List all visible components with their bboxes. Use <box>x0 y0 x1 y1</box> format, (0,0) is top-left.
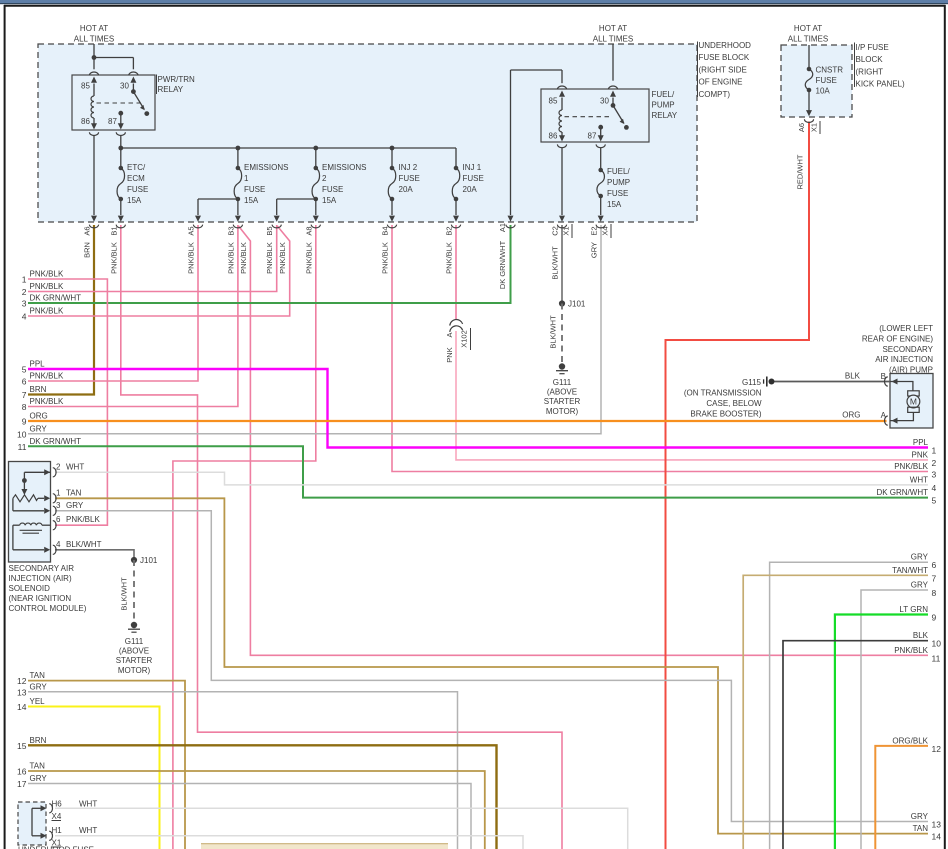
svg-text:FUSE: FUSE <box>322 185 343 194</box>
svg-text:TAN: TAN <box>66 488 82 497</box>
svg-text:GRY: GRY <box>66 501 84 510</box>
svg-text:PNK/BLK: PNK/BLK <box>30 282 64 291</box>
svg-text:(ON TRANSMISSION: (ON TRANSMISSION <box>684 389 762 398</box>
svg-text:GRY: GRY <box>911 581 929 590</box>
svg-text:5: 5 <box>932 496 937 506</box>
svg-text:15A: 15A <box>127 196 142 205</box>
svg-text:GRY: GRY <box>590 242 599 258</box>
svg-text:REAR OF ENGINE): REAR OF ENGINE) <box>862 334 933 343</box>
svg-text:4: 4 <box>56 540 61 549</box>
svg-text:ALL TIMES: ALL TIMES <box>593 35 633 44</box>
svg-text:A8: A8 <box>304 226 313 235</box>
svg-text:(LOWER LEFT: (LOWER LEFT <box>879 324 933 333</box>
svg-text:EMISSIONS: EMISSIONS <box>244 163 288 172</box>
svg-text:17: 17 <box>17 779 27 789</box>
svg-text:3: 3 <box>56 501 61 510</box>
svg-text:E2: E2 <box>590 226 599 235</box>
svg-text:J101: J101 <box>140 556 158 565</box>
svg-text:C2: C2 <box>551 226 560 236</box>
svg-text:WHT: WHT <box>79 826 97 835</box>
svg-text:8: 8 <box>22 402 27 412</box>
svg-text:PWR/TRN: PWR/TRN <box>158 75 196 84</box>
svg-text:RED/WHT: RED/WHT <box>796 154 805 189</box>
svg-text:FUSE: FUSE <box>244 185 265 194</box>
svg-text:(RIGHT: (RIGHT <box>856 67 884 76</box>
svg-text:LT GRN: LT GRN <box>899 605 928 614</box>
svg-text:M: M <box>910 396 917 406</box>
svg-text:SECONDARY AIR: SECONDARY AIR <box>9 564 75 573</box>
svg-text:G111: G111 <box>553 378 572 387</box>
svg-text:FUSE: FUSE <box>607 189 628 198</box>
svg-text:PPL: PPL <box>30 360 46 369</box>
svg-text:BLK: BLK <box>845 372 861 381</box>
svg-text:BLK: BLK <box>913 631 929 640</box>
svg-text:PPL: PPL <box>913 438 929 447</box>
svg-text:GRY: GRY <box>911 812 929 821</box>
svg-text:ORG: ORG <box>30 412 48 421</box>
svg-text:X1: X1 <box>810 123 819 132</box>
svg-text:EMISSIONS: EMISSIONS <box>322 163 366 172</box>
svg-text:ECM: ECM <box>127 174 145 183</box>
svg-text:PNK/BLK: PNK/BLK <box>445 242 454 274</box>
svg-text:15A: 15A <box>322 196 337 205</box>
svg-text:COMPT): COMPT) <box>699 90 731 99</box>
svg-text:GRY: GRY <box>30 424 48 433</box>
svg-text:GRY: GRY <box>911 553 929 562</box>
svg-text:14: 14 <box>932 832 942 842</box>
svg-text:PUMP: PUMP <box>607 178 630 187</box>
svg-text:3: 3 <box>22 299 27 309</box>
svg-text:G111: G111 <box>125 637 144 646</box>
svg-text:87: 87 <box>588 132 597 141</box>
svg-text:20A: 20A <box>463 185 478 194</box>
svg-text:(ABOVE: (ABOVE <box>547 388 577 397</box>
svg-text:FUSE: FUSE <box>463 174 484 183</box>
svg-text:TAN: TAN <box>30 671 46 680</box>
svg-text:A6: A6 <box>797 123 806 132</box>
svg-text:PNK/BLK: PNK/BLK <box>381 242 390 274</box>
svg-text:4: 4 <box>932 483 937 493</box>
svg-text:SOLENOID: SOLENOID <box>9 584 51 593</box>
svg-text:ORG/BLK: ORG/BLK <box>892 736 928 745</box>
svg-text:GRY: GRY <box>30 774 48 783</box>
svg-text:85: 85 <box>549 97 558 106</box>
svg-text:DK GRN/WHT: DK GRN/WHT <box>30 294 82 303</box>
svg-text:9: 9 <box>22 417 27 427</box>
svg-text:HOT AT: HOT AT <box>80 24 108 33</box>
svg-text:PNK/BLK: PNK/BLK <box>278 242 287 274</box>
svg-text:B1: B1 <box>109 226 118 235</box>
svg-text:15: 15 <box>17 741 27 751</box>
svg-text:CONTROL MODULE): CONTROL MODULE) <box>9 604 87 613</box>
svg-text:20A: 20A <box>399 185 414 194</box>
svg-text:11: 11 <box>18 442 27 452</box>
svg-text:UNDERHOOD FUSE: UNDERHOOD FUSE <box>18 846 94 849</box>
svg-text:PNK/BLK: PNK/BLK <box>226 242 235 274</box>
svg-text:FUEL/: FUEL/ <box>652 90 675 99</box>
svg-text:B: B <box>881 372 886 381</box>
svg-text:PNK/BLK: PNK/BLK <box>109 242 118 274</box>
svg-text:86: 86 <box>549 132 558 141</box>
svg-text:9: 9 <box>932 613 937 623</box>
svg-text:(RIGHT SIDE: (RIGHT SIDE <box>699 65 747 74</box>
svg-text:1: 1 <box>22 275 27 285</box>
svg-text:2: 2 <box>322 174 327 183</box>
svg-text:2: 2 <box>932 458 937 468</box>
svg-text:DK GRN/WHT: DK GRN/WHT <box>876 488 928 497</box>
svg-text:DK GRN/WHT: DK GRN/WHT <box>498 240 507 289</box>
svg-text:12: 12 <box>17 676 27 686</box>
svg-text:A: A <box>445 332 454 337</box>
svg-text:TAN: TAN <box>30 762 46 771</box>
svg-text:YEL: YEL <box>30 697 46 706</box>
svg-text:H1: H1 <box>52 826 63 835</box>
svg-text:B2: B2 <box>445 226 454 235</box>
svg-text:BLK/WHT: BLK/WHT <box>120 577 129 611</box>
svg-text:PNK/BLK: PNK/BLK <box>30 307 64 316</box>
svg-text:FUEL/: FUEL/ <box>607 167 630 176</box>
svg-text:ALL TIMES: ALL TIMES <box>788 35 828 44</box>
svg-text:1: 1 <box>56 488 61 497</box>
svg-text:10: 10 <box>932 639 942 649</box>
svg-text:UNDERHOOD: UNDERHOOD <box>699 41 752 50</box>
svg-text:2: 2 <box>56 462 61 471</box>
svg-text:7: 7 <box>932 573 937 583</box>
svg-text:B5: B5 <box>265 226 274 235</box>
svg-text:(NEAR IGNITION: (NEAR IGNITION <box>9 594 72 603</box>
svg-text:PNK/BLK: PNK/BLK <box>265 242 274 274</box>
svg-text:A6: A6 <box>83 226 92 235</box>
svg-text:6: 6 <box>22 377 27 387</box>
svg-text:MOTOR): MOTOR) <box>546 407 579 416</box>
svg-text:5: 5 <box>22 365 27 375</box>
svg-text:2: 2 <box>22 287 27 297</box>
svg-text:G115: G115 <box>742 378 762 387</box>
svg-text:30: 30 <box>600 97 609 106</box>
svg-text:OF ENGINE: OF ENGINE <box>699 78 743 87</box>
svg-text:FUSE BLOCK: FUSE BLOCK <box>699 53 750 62</box>
svg-text:B3: B3 <box>226 226 235 235</box>
svg-text:GRY: GRY <box>30 682 48 691</box>
svg-text:MOTOR): MOTOR) <box>118 666 151 675</box>
svg-text:PNK/BLK: PNK/BLK <box>30 372 64 381</box>
svg-text:A5: A5 <box>187 226 196 235</box>
svg-text:H6: H6 <box>52 800 63 809</box>
svg-text:J101: J101 <box>568 300 586 309</box>
svg-text:BLK/WHT: BLK/WHT <box>549 315 558 349</box>
svg-text:8: 8 <box>932 588 937 598</box>
svg-text:KICK PANEL): KICK PANEL) <box>856 80 906 89</box>
svg-text:AIR INJECTION: AIR INJECTION <box>875 355 933 364</box>
svg-text:BRN: BRN <box>30 385 47 394</box>
svg-text:(ABOVE: (ABOVE <box>119 647 149 656</box>
svg-text:A1: A1 <box>498 223 507 232</box>
svg-text:10: 10 <box>17 429 27 439</box>
svg-text:10A: 10A <box>816 87 831 96</box>
svg-text:FUSE: FUSE <box>816 76 837 85</box>
svg-text:HOT AT: HOT AT <box>599 24 627 33</box>
svg-text:INJECTION (AIR): INJECTION (AIR) <box>9 574 72 583</box>
svg-text:ALL TIMES: ALL TIMES <box>74 35 114 44</box>
svg-text:13: 13 <box>17 687 27 697</box>
svg-text:TAN/WHT: TAN/WHT <box>892 566 928 575</box>
svg-text:CNSTR: CNSTR <box>816 66 844 75</box>
svg-text:6: 6 <box>932 560 937 570</box>
svg-text:TAN: TAN <box>913 824 929 833</box>
svg-text:15A: 15A <box>244 196 259 205</box>
svg-text:30: 30 <box>120 82 129 91</box>
svg-text:FUSE: FUSE <box>399 174 420 183</box>
svg-text:SECONDARY: SECONDARY <box>882 345 933 354</box>
svg-text:(AIR) PUMP: (AIR) PUMP <box>889 366 933 375</box>
svg-text:BRN: BRN <box>30 736 47 745</box>
svg-text:7: 7 <box>22 390 27 400</box>
svg-text:B4: B4 <box>381 226 390 235</box>
svg-text:HOT AT: HOT AT <box>794 24 822 33</box>
svg-text:15A: 15A <box>607 200 622 209</box>
svg-text:WHT: WHT <box>66 462 84 471</box>
svg-text:PNK: PNK <box>912 450 929 459</box>
svg-text:PNK/BLK: PNK/BLK <box>239 242 248 274</box>
svg-text:12: 12 <box>932 744 942 754</box>
svg-text:BRAKE BOOSTER): BRAKE BOOSTER) <box>690 409 761 418</box>
svg-text:PNK/BLK: PNK/BLK <box>30 270 64 279</box>
svg-text:X102: X102 <box>460 330 469 348</box>
svg-text:86: 86 <box>81 117 90 126</box>
svg-text:STARTER: STARTER <box>544 397 581 406</box>
svg-text:X1: X1 <box>562 226 571 235</box>
svg-text:WHT: WHT <box>79 800 97 809</box>
svg-text:PNK/BLK: PNK/BLK <box>66 515 100 524</box>
svg-text:A: A <box>881 411 887 420</box>
svg-text:BRN: BRN <box>83 242 92 258</box>
svg-text:PNK/BLK: PNK/BLK <box>304 242 313 274</box>
svg-text:13: 13 <box>932 820 942 830</box>
svg-text:I/P FUSE: I/P FUSE <box>856 43 889 52</box>
svg-text:ORG: ORG <box>842 411 860 420</box>
svg-text:X4: X4 <box>52 812 62 821</box>
svg-text:PUMP: PUMP <box>652 101 675 110</box>
svg-text:1: 1 <box>244 174 249 183</box>
svg-text:PNK/BLK: PNK/BLK <box>894 646 928 655</box>
svg-text:WHT: WHT <box>910 475 928 484</box>
svg-text:FUSE: FUSE <box>127 185 148 194</box>
svg-text:3: 3 <box>932 470 937 480</box>
svg-text:BLK/WHT: BLK/WHT <box>66 540 102 549</box>
svg-text:X4: X4 <box>601 226 610 235</box>
svg-text:CASE, BELOW: CASE, BELOW <box>706 399 762 408</box>
svg-text:11: 11 <box>932 653 941 663</box>
svg-text:4: 4 <box>22 312 27 322</box>
svg-text:PNK/BLK: PNK/BLK <box>187 242 196 274</box>
svg-text:PNK/BLK: PNK/BLK <box>30 397 64 406</box>
svg-text:85: 85 <box>81 82 90 91</box>
svg-text:DK GRN/WHT: DK GRN/WHT <box>30 437 82 446</box>
svg-text:INJ 2: INJ 2 <box>399 163 418 172</box>
svg-text:14: 14 <box>17 702 27 712</box>
svg-text:INJ 1: INJ 1 <box>463 163 482 172</box>
svg-text:BLOCK: BLOCK <box>856 55 884 64</box>
svg-text:ETC/: ETC/ <box>127 163 146 172</box>
svg-text:87: 87 <box>108 117 117 126</box>
svg-text:PNK/BLK: PNK/BLK <box>894 462 928 471</box>
svg-text:PNK: PNK <box>445 347 454 362</box>
svg-text:6: 6 <box>56 515 61 524</box>
svg-text:16: 16 <box>17 767 27 777</box>
svg-text:1: 1 <box>932 446 937 456</box>
svg-text:RELAY: RELAY <box>158 85 184 94</box>
svg-text:RELAY: RELAY <box>652 111 678 120</box>
svg-text:BLK/WHT: BLK/WHT <box>551 246 560 280</box>
svg-text:STARTER: STARTER <box>116 656 153 665</box>
